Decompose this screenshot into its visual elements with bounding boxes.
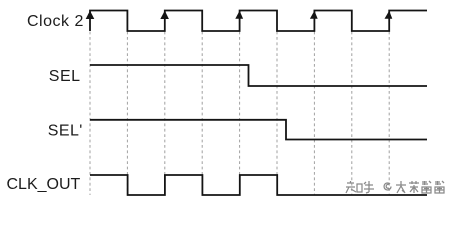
dashed gridline t5 [276, 10, 278, 195]
rising-edge arrow 1 [86, 11, 95, 19]
watermark glyph hu [364, 181, 374, 193]
dashed gridline t6 [313, 10, 315, 195]
svg-text:SEL': SEL' [48, 123, 83, 140]
rising-edge arrow 2 [160, 11, 169, 19]
waveform SEL [90, 65, 427, 86]
watermark glyph cai [409, 181, 419, 193]
dashed gridline t0 [89, 10, 91, 195]
watermark glyph jiang1 [422, 181, 431, 193]
dashed gridline t8 [388, 10, 390, 195]
svg-text:Clock 2: Clock 2 [27, 13, 84, 30]
clock waveform Clock 2 [90, 11, 427, 32]
dashed gridline t4 [239, 10, 241, 195]
rising-edge arrow 5 [385, 11, 393, 19]
svg-text:SEL: SEL [49, 68, 81, 85]
dashed gridline t7 [351, 10, 353, 195]
rising-edge arrow 4 [310, 11, 318, 19]
dashed gridline t2 [164, 10, 166, 195]
watermark glyph zhi [346, 181, 362, 193]
watermark glyph tai [396, 181, 406, 193]
dashed gridline t1 [126, 10, 128, 195]
rising-edge arrow 3 [235, 11, 243, 19]
dashed gridline t3 [201, 10, 203, 195]
svg-text:CLK_OUT: CLK_OUT [7, 176, 81, 193]
watermark glyph jiang2 [435, 181, 444, 193]
waveform SEL' [90, 120, 427, 140]
watermark glyph at [384, 183, 391, 190]
waveform CLK_OUT [90, 175, 427, 195]
watermark zhihu @taicaijiangjiang [346, 181, 444, 193]
